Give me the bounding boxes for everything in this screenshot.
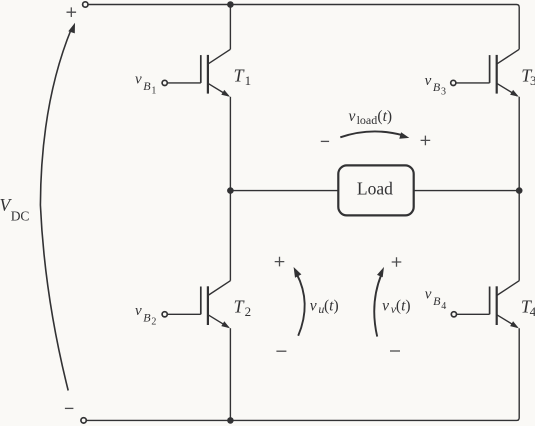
wire: gate lead T2 (168, 313, 201, 315)
wire: gate lead T4 (457, 313, 490, 315)
svg-text:B: B (143, 79, 151, 93)
wire: top bus from + terminal to top-right corner, down to T3 collector (88, 5, 519, 50)
svg-text:4: 4 (441, 301, 446, 312)
wire: left leg lower (T2 emitter to bottom bus) (229, 328, 231, 420)
arrow: vload(t) polarity arc (340, 131, 409, 138)
transistor T2 (IGBT) (201, 281, 231, 329)
junction: bottom bus / left leg (227, 417, 234, 424)
label + (load right polarity) (421, 136, 431, 146)
arrow: VDC source voltage (40, 23, 75, 391)
positive DC terminal (83, 2, 88, 7)
junction: left mid-point node (227, 187, 234, 194)
gate terminal of T3 (451, 80, 456, 85)
svg-text:2: 2 (245, 304, 252, 319)
wire: left leg middle (T1 emitter to T2 collector) (229, 97, 231, 281)
label + (vv polarity) (392, 257, 402, 267)
label − (vu polarity) (276, 350, 286, 352)
wire: bottom bus from − terminal to bottom-right corner, up to T4 emitter (86, 328, 519, 420)
svg-text:B: B (433, 80, 441, 94)
arrow: vu(t) voltage (294, 267, 305, 336)
svg-text:B: B (143, 310, 151, 324)
svg-text:4: 4 (530, 304, 535, 319)
svg-text:v: v (135, 303, 142, 319)
svg-text:3: 3 (441, 87, 446, 98)
junction: right mid-point node (516, 187, 523, 194)
transistor T4 (IGBT) (490, 281, 520, 329)
junction: top bus / left leg (227, 1, 234, 8)
svg-text:1: 1 (151, 85, 156, 96)
label + (vu polarity) (275, 257, 285, 267)
svg-text:v: v (310, 297, 317, 314)
wire: gate lead T3 (456, 82, 490, 84)
svg-text:v: v (349, 108, 356, 125)
wire: right leg middle (T3 emitter to T4 collector) (518, 97, 520, 281)
negative DC terminal (81, 418, 86, 423)
load box (338, 165, 413, 215)
svg-text:v: v (382, 297, 389, 314)
svg-text:1: 1 (245, 73, 252, 88)
wire: Load to right node (414, 190, 520, 192)
label − (vv polarity) (390, 350, 400, 352)
transistor T1 (IGBT) (201, 49, 231, 97)
transistor T3 (IGBT) (490, 49, 520, 97)
svg-text:(t): (t) (324, 297, 339, 314)
svg-text:B: B (433, 294, 441, 308)
gate terminal of T4 (451, 312, 456, 317)
label − (DC negative) (65, 407, 74, 409)
gate terminal of T1 (162, 80, 167, 85)
arrow: vv(t) voltage (374, 267, 384, 337)
svg-text:(t): (t) (396, 297, 411, 314)
svg-text:v: v (425, 287, 432, 303)
svg-text:3: 3 (530, 73, 535, 88)
label + (DC positive) (67, 7, 77, 17)
svg-text:Load: Load (357, 178, 393, 198)
svg-text:v: v (135, 72, 142, 88)
svg-text:DC: DC (11, 208, 30, 223)
svg-text:(t): (t) (377, 108, 392, 125)
label − (load left polarity) (321, 140, 329, 142)
svg-text:v: v (425, 73, 432, 89)
wire: left node to Load (230, 190, 338, 192)
wire: gate lead T1 (168, 82, 201, 84)
gate terminal of T2 (162, 312, 167, 317)
svg-text:load: load (357, 113, 378, 127)
svg-text:2: 2 (151, 317, 156, 328)
wire: left leg upper (top bus to T1) (229, 5, 231, 50)
